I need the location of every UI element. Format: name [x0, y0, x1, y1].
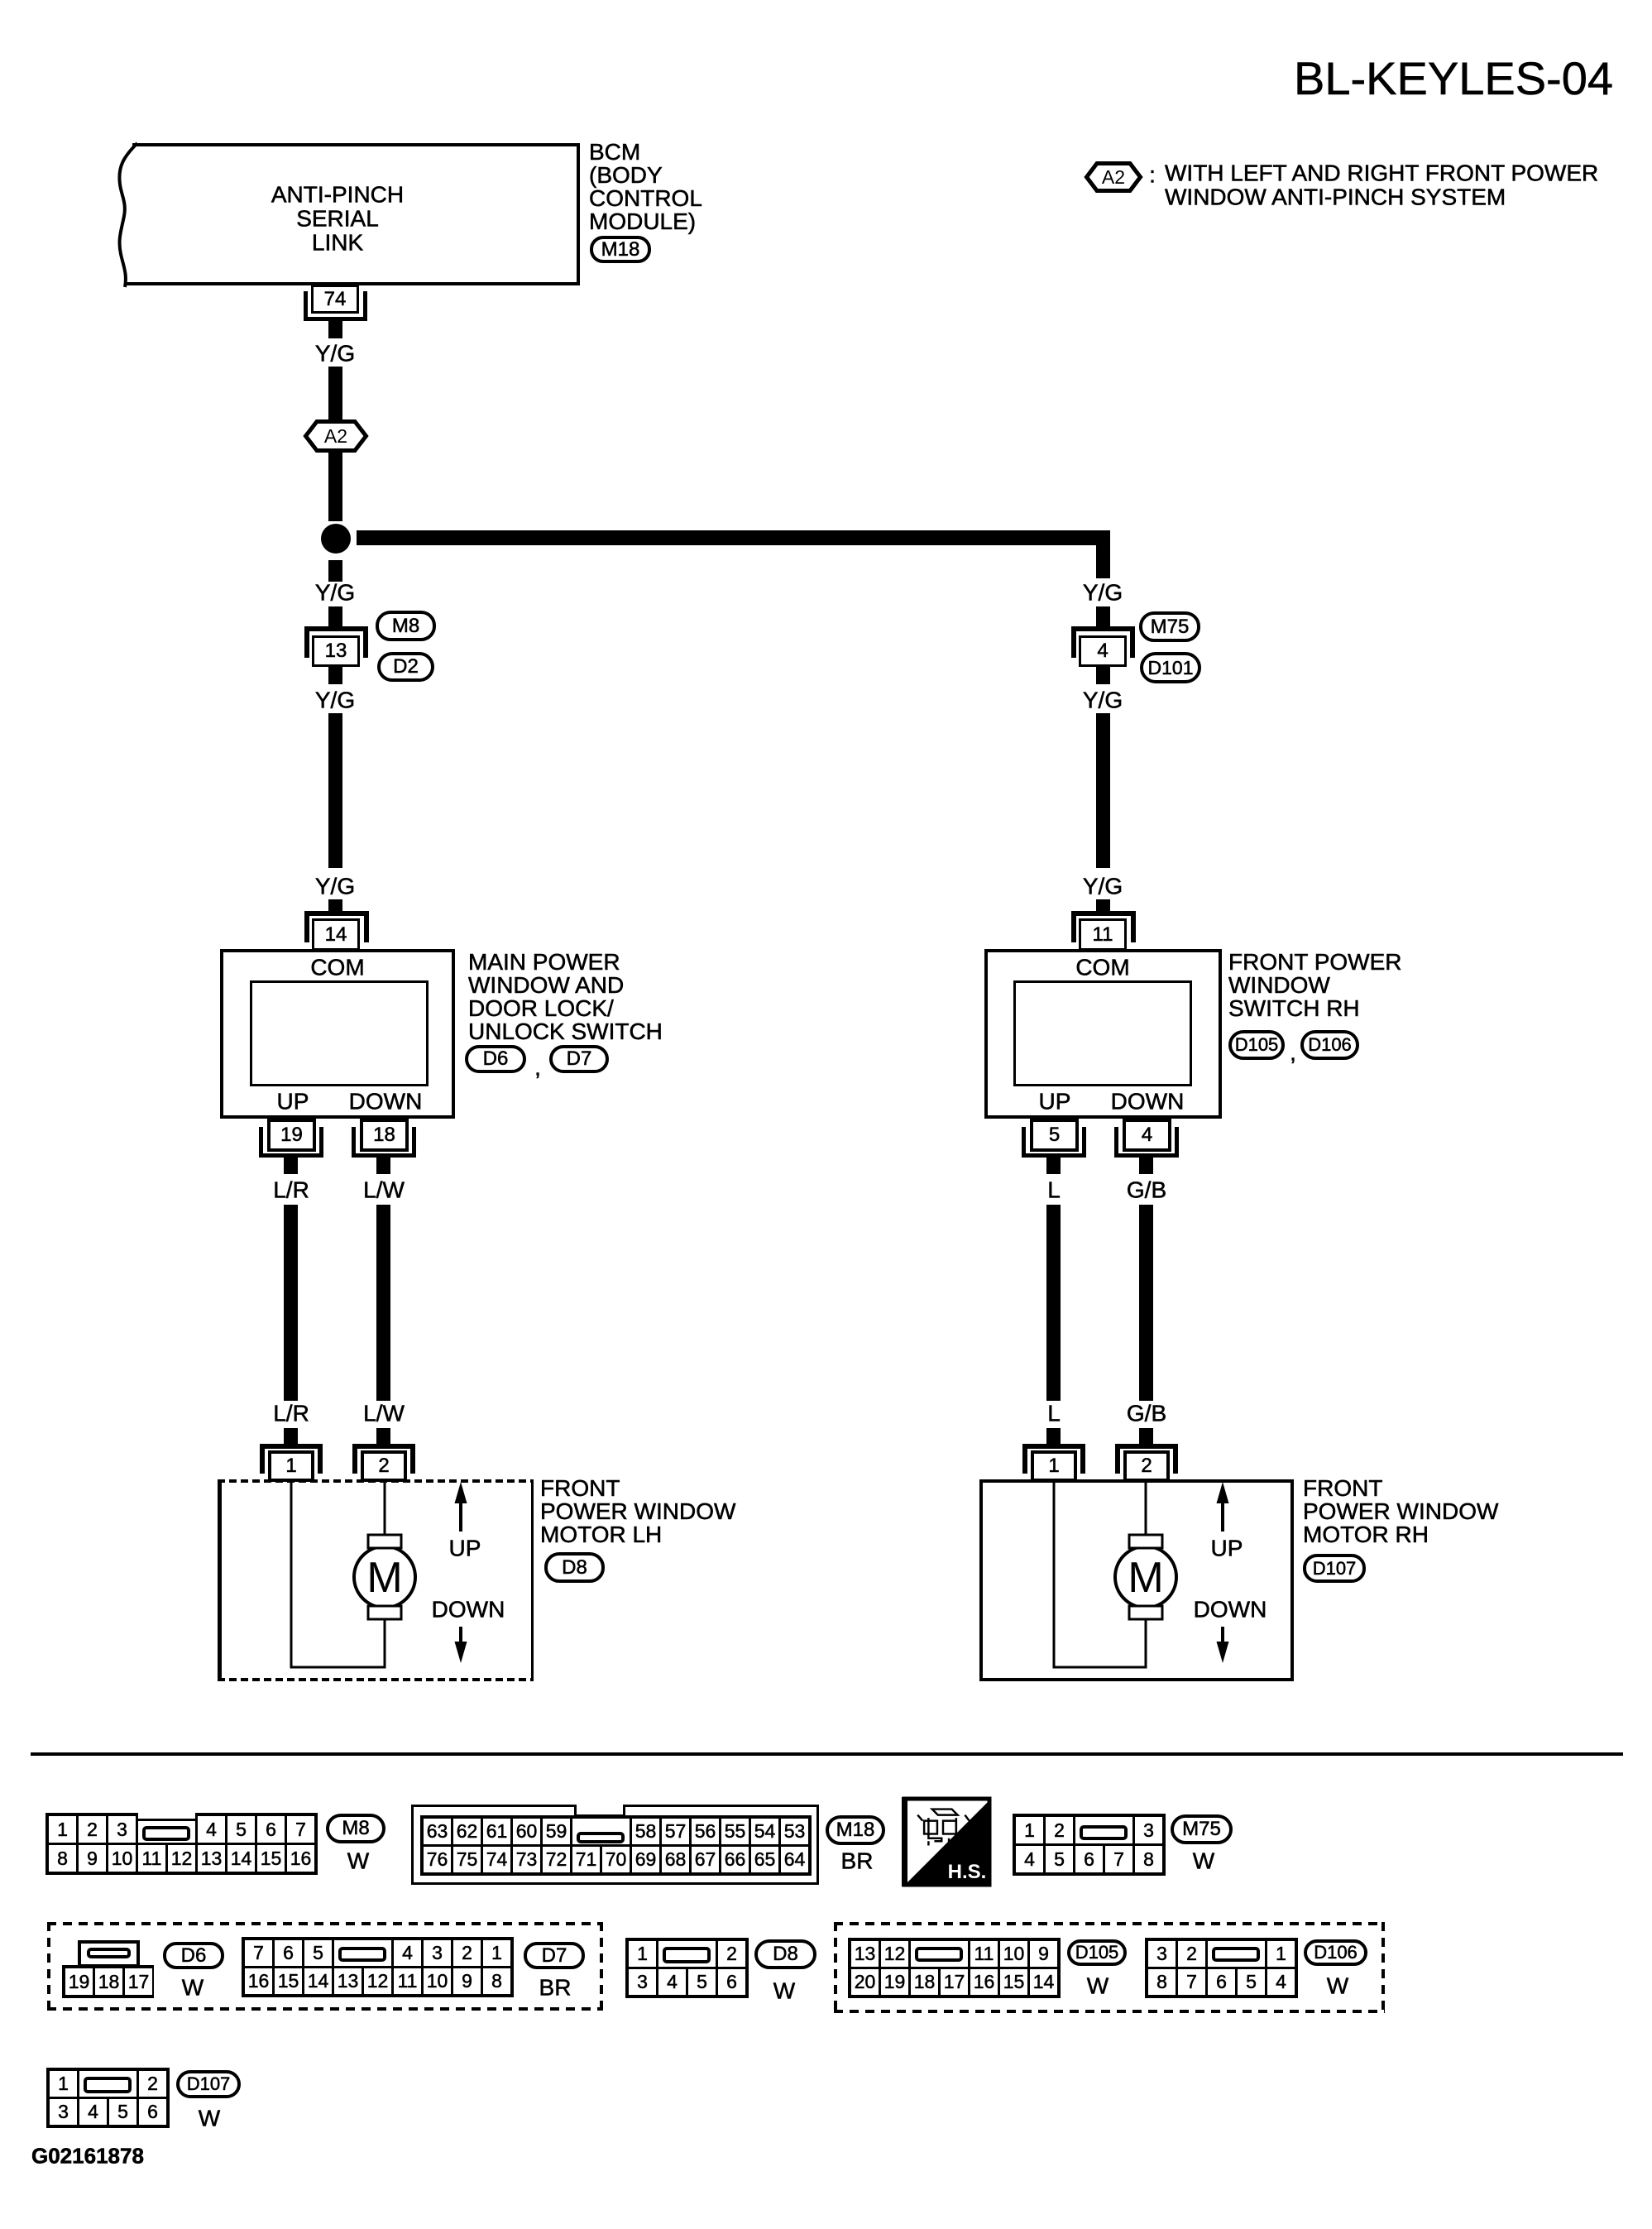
connector label M8: [376, 611, 436, 641]
svg-text:M: M: [1128, 1554, 1163, 1602]
motor pin 1 bracket RH: [1022, 1444, 1085, 1474]
legend colon: [1149, 162, 1156, 186]
label UP motor RH: [1211, 1536, 1243, 1560]
motor pin 2 RH: [1123, 1450, 1170, 1482]
wire stub below pin 74: [328, 319, 342, 338]
motor pin 2 bracket RH: [1115, 1444, 1178, 1474]
wire dash above connector 4: [1096, 606, 1110, 626]
svg-text:H.S.: H.S.: [948, 1861, 987, 1883]
BCM label: [589, 141, 702, 233]
RH switch inner contact box: [1013, 980, 1192, 1086]
connector label D2: [377, 652, 434, 682]
connector 11 bracket: [1071, 911, 1136, 942]
svg-text:M: M: [366, 1554, 402, 1602]
motor RH internal circuit path: [979, 1479, 1294, 1681]
connector label D7 bottom: [524, 1942, 585, 1969]
connector label D7: [549, 1045, 609, 1073]
label UP motor LH: [449, 1536, 481, 1560]
legend connector A2 hexagon: [1085, 161, 1142, 193]
wire color label Y/G left 2: [315, 688, 355, 712]
pin 74 bracket: [304, 291, 367, 321]
legend text line2: [1165, 185, 1506, 209]
M18 top notch: [577, 1803, 623, 1814]
wire color label L/W lower: [363, 1401, 405, 1425]
wire stub below pin 4: [1139, 1157, 1153, 1174]
bus corner wire down right branch: [1096, 531, 1110, 578]
wire dash above connector 13: [328, 606, 342, 626]
color label W for M8: [347, 1848, 369, 1872]
color label W for D8: [773, 1978, 795, 2002]
color label W for D6: [182, 1975, 204, 1999]
connector label D8: [544, 1552, 605, 1583]
connector label D106 bottom: [1304, 1939, 1367, 1966]
connector face D105: [848, 1938, 1061, 1998]
motor pin 1 LH: [268, 1450, 314, 1482]
connector label D107: [1303, 1554, 1366, 1583]
color label W for M75: [1193, 1848, 1214, 1872]
wire color label Y/G: [315, 341, 355, 365]
main switch name label: [468, 951, 663, 1043]
main switch inner contact box: [250, 980, 429, 1086]
pin 19 bracket: [259, 1127, 323, 1158]
wire stub below connector 4: [1096, 667, 1110, 684]
wire dash below junction: [328, 560, 342, 582]
wire L vertical: [1046, 1205, 1061, 1401]
svg-text:A2: A2: [1102, 166, 1125, 188]
connector label M75: [1139, 611, 1200, 642]
RH switch name label: [1228, 951, 1401, 1020]
wire color label G/B lower: [1127, 1401, 1166, 1425]
M8 slot top recess: [138, 1811, 195, 1819]
separator rule: [31, 1752, 1623, 1756]
pin 74 of M18: [311, 285, 359, 314]
wire Y/G from BCM to A2: [328, 367, 342, 421]
pin 11 COM of RH switch: [1079, 918, 1127, 951]
connector label D101: [1140, 652, 1201, 683]
pin 4 bracket: [1114, 1127, 1179, 1158]
pin 18 bracket: [352, 1127, 416, 1158]
connector label D6: [465, 1045, 526, 1073]
BCM (Body Control Module) box U1: [132, 143, 580, 285]
wire color label L: [1047, 1177, 1061, 1201]
wire color label Y/G left 3: [315, 874, 355, 898]
motor LH internal circuit path: [218, 1479, 534, 1681]
wire color label Y/G right: [1083, 580, 1123, 604]
connector label D105 bottom: [1067, 1939, 1127, 1966]
connector label M18: [590, 236, 651, 263]
pin 13 of M8/D2: [312, 635, 360, 667]
wire stub below pin 5: [1046, 1157, 1061, 1174]
main power window and door lock/unlock switch box: [220, 949, 455, 1119]
wire stub above motor pin 1 LH: [284, 1428, 298, 1445]
wire color label L/W: [363, 1177, 405, 1201]
wire stub below connector 13: [328, 667, 342, 684]
connector label M8 bottom: [326, 1814, 385, 1843]
connector face M18: [420, 1815, 812, 1876]
label DOWN motor RH: [1194, 1597, 1267, 1621]
wire Y/G to main switch: [328, 713, 342, 868]
wire stub above motor pin 2 LH: [376, 1428, 390, 1445]
connector 14 bracket: [304, 911, 369, 942]
color label W for D107: [199, 2106, 220, 2130]
wire stub below pin 19: [284, 1157, 298, 1174]
wire color label L/R: [273, 1177, 309, 1201]
color label W for D105: [1087, 1973, 1109, 1997]
color label BR for D7: [539, 1975, 572, 1999]
pin 18 DOWN output main switch: [360, 1119, 409, 1152]
connector label M75 bottom: [1171, 1814, 1233, 1844]
inline connector bracket right: [1071, 626, 1135, 658]
svg-text:A2: A2: [324, 425, 347, 447]
label UP left: [277, 1089, 309, 1113]
H.S. harness symbol icon: [902, 1797, 992, 1886]
pin 14 COM of main switch: [312, 918, 360, 951]
color label BR for M18: [841, 1848, 874, 1872]
wire dash above pin 11: [1096, 899, 1110, 912]
comma between D105 D106: [1290, 1040, 1296, 1064]
pin 4 DOWN output RH switch: [1123, 1119, 1171, 1152]
motor pin 2 LH: [361, 1450, 407, 1482]
label COM left: [310, 955, 364, 979]
wire Y/G to RH switch: [1096, 713, 1110, 868]
connector face D107: [46, 2068, 170, 2128]
wire color label Y/G left: [315, 580, 355, 604]
legend text line1: [1165, 161, 1598, 185]
motor pin 2 bracket LH: [352, 1444, 415, 1474]
label DOWN right: [1111, 1089, 1185, 1113]
connector label D106: [1300, 1030, 1359, 1060]
connector face M18 outer shell: [411, 1805, 819, 1885]
BCM box wavy left edge: [108, 141, 145, 289]
pin 5 UP output RH switch: [1030, 1119, 1079, 1152]
figure number G02161878: [31, 2145, 144, 2167]
motor RH name label: [1303, 1477, 1498, 1546]
bus wire horizontal Y/G: [357, 530, 1110, 545]
front power window switch RH box: [984, 949, 1222, 1119]
connector face M8: [45, 1813, 318, 1875]
color label W for D106: [1327, 1973, 1348, 1997]
label COM right: [1075, 955, 1129, 979]
connector face D7: [242, 1937, 514, 1997]
wire G/B vertical: [1139, 1205, 1153, 1401]
title BL-KEYLES-04: [1294, 55, 1613, 103]
junction node dot: [321, 524, 351, 554]
connector face D6: [78, 1940, 140, 1968]
connector face D8: [625, 1938, 749, 1998]
pin 19 UP output main switch: [267, 1119, 316, 1152]
wire stub above motor pin 1 RH: [1046, 1428, 1061, 1445]
BCM internal label ANTI-PINCH SERIAL LINK: [271, 183, 404, 255]
connector label D105: [1228, 1030, 1285, 1060]
connector face D106: [1145, 1938, 1298, 1998]
wire color label L/R lower: [273, 1401, 309, 1425]
wire stub above motor pin 2 RH: [1139, 1428, 1153, 1445]
connector label D6 bottom: [163, 1942, 224, 1969]
wire color label L lower: [1047, 1401, 1061, 1425]
label DOWN motor LH: [432, 1597, 505, 1621]
wire L/W vertical: [376, 1205, 390, 1401]
dashed option box around D105 D106: [834, 1922, 1385, 1925]
motor pin 1 RH: [1031, 1450, 1077, 1482]
wire color label Y/G right 3: [1083, 874, 1123, 898]
connector label M18 bottom: [826, 1815, 885, 1845]
pin 5 bracket: [1022, 1127, 1086, 1158]
wire color label G/B: [1127, 1177, 1166, 1201]
motor pin 1 bracket LH: [260, 1444, 323, 1474]
inline connector bracket left: [304, 626, 368, 658]
front power window motor RH box: [979, 1479, 1294, 1681]
motor LH name label: [540, 1477, 735, 1546]
label UP right: [1039, 1089, 1071, 1113]
wire dash above pin 14: [328, 899, 342, 912]
pin 4 of M75/D101: [1079, 635, 1127, 667]
dashed option box around D6 D7: [47, 1922, 603, 1925]
front power window motor LH box: [218, 1479, 534, 1681]
wire color label Y/G right 2: [1083, 688, 1123, 712]
wire A2 to junction: [328, 453, 342, 521]
connector label D107 bottom: [176, 2070, 241, 2098]
label DOWN left: [349, 1089, 423, 1113]
wire stub below pin 18: [376, 1157, 390, 1174]
connector label D8 bottom: [754, 1939, 816, 1969]
option connector A2 (diamond): [304, 419, 368, 453]
comma between D6 D7: [534, 1055, 541, 1079]
connector face M75: [1013, 1814, 1166, 1876]
wire L/R vertical: [284, 1205, 298, 1401]
